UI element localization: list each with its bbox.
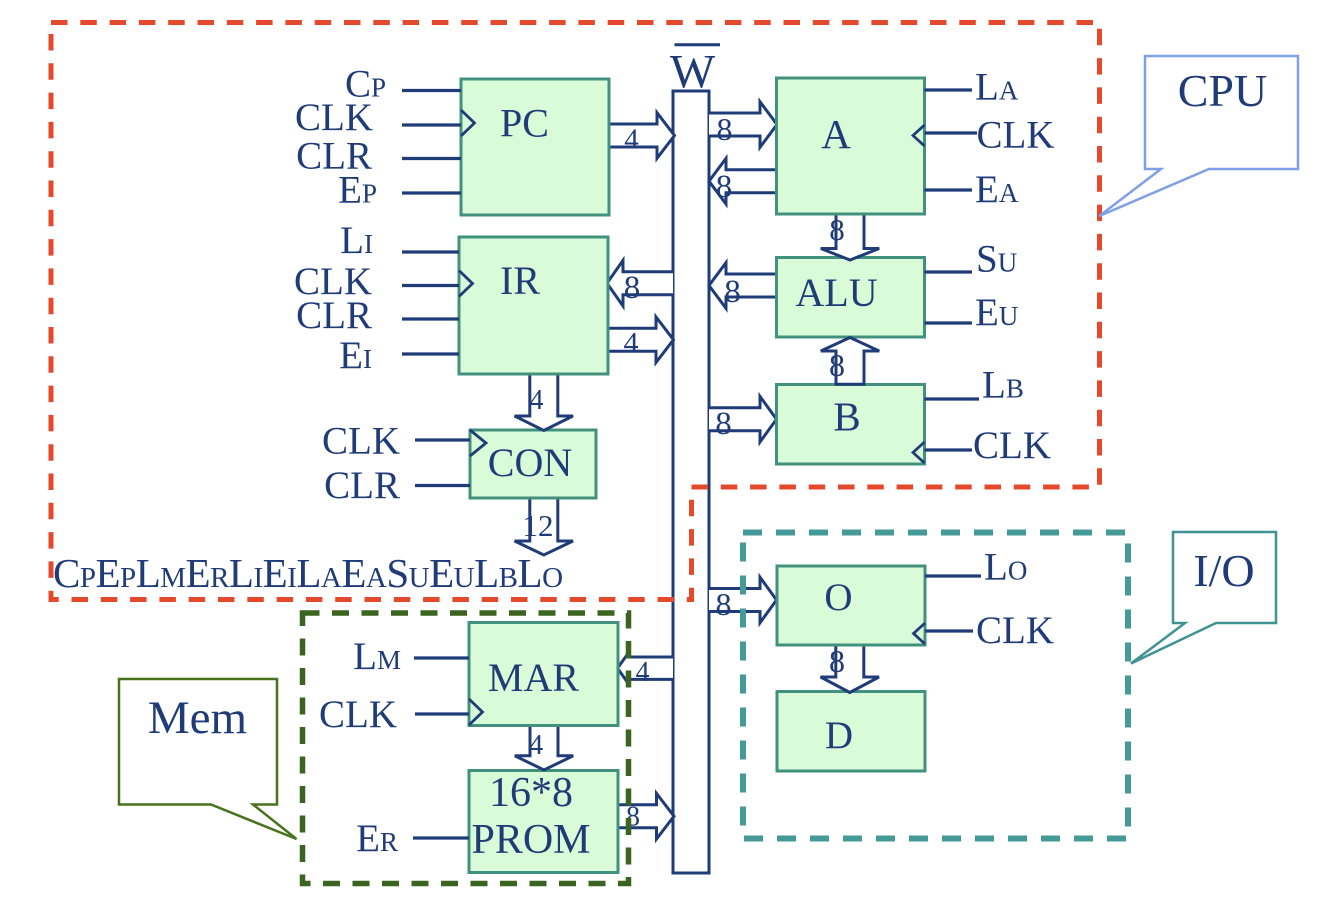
svg-text:CLR: CLR — [324, 464, 400, 507]
wire LM to MAR — [414, 656, 469, 659]
pin label EI — [339, 334, 372, 377]
arrow IR to CON, 4 bits — [515, 376, 573, 431]
wire CLK to O — [925, 629, 973, 632]
svg-text:CON: CON — [488, 440, 572, 485]
wire CLK to A — [925, 131, 978, 134]
wire A to EA — [925, 188, 973, 191]
block ALU — [777, 258, 925, 338]
bus arrow W to MAR, 4 bits — [618, 653, 674, 688]
svg-text:MAR: MAR — [488, 655, 579, 700]
arrow B to ALU, 8 bits — [821, 338, 879, 385]
svg-text:LB: LB — [982, 364, 1024, 407]
pin label CLK of B — [973, 424, 1051, 467]
svg-text:I/O: I/O — [1193, 545, 1254, 596]
svg-text:A: A — [821, 111, 851, 157]
bus W vertical rectangle — [673, 91, 709, 873]
svg-text:D: D — [825, 714, 853, 757]
svg-text:CLK: CLK — [322, 420, 400, 463]
svg-text:8: 8 — [829, 347, 845, 383]
callout Mem — [119, 679, 297, 839]
clock input chevron B — [913, 442, 925, 463]
register O — [777, 566, 925, 645]
callout I/O — [1131, 532, 1276, 664]
wire CLR to IR — [402, 317, 459, 320]
bus arrow ALU to W, 8 bits — [709, 263, 777, 310]
arrow MAR to PROM, 4 bits — [515, 727, 573, 770]
arrow CON control word out, 12 bits — [515, 500, 573, 556]
svg-text:B: B — [833, 394, 860, 440]
Mem region dashed boundary — [303, 613, 629, 884]
svg-text:8: 8 — [717, 111, 733, 147]
wire CLK to MAR — [415, 712, 469, 715]
svg-text:CLK: CLK — [977, 114, 1055, 157]
svg-text:8: 8 — [829, 212, 845, 247]
svg-text:CLK: CLK — [295, 96, 373, 139]
svg-text:CLR: CLR — [296, 294, 372, 337]
svg-text:4: 4 — [530, 385, 544, 416]
pin label SU — [976, 238, 1017, 281]
svg-text:8: 8 — [715, 406, 732, 442]
svg-text:EI: EI — [339, 334, 372, 377]
clock input chevron IR — [459, 271, 473, 297]
svg-text:4: 4 — [624, 327, 639, 360]
svg-text:W: W — [670, 46, 716, 99]
pin label CLK of A — [977, 114, 1055, 157]
svg-text:EA: EA — [975, 168, 1019, 211]
svg-text:8: 8 — [624, 270, 641, 306]
wire ALU to EU — [925, 321, 973, 324]
display D — [777, 692, 925, 772]
pin label CLK of IR — [294, 260, 372, 303]
memory 16*8 PROM — [469, 770, 618, 873]
svg-text:SU: SU — [976, 238, 1017, 281]
register IR — [459, 237, 608, 374]
svg-text:O: O — [824, 576, 852, 619]
pin label LM — [353, 635, 401, 678]
svg-text:LM: LM — [353, 635, 401, 678]
svg-text:4: 4 — [624, 124, 639, 156]
control word label CpEpLmErLiEiLaEaSuEuLbLo — [53, 550, 563, 596]
svg-text:LA: LA — [975, 66, 1019, 109]
svg-text:16*8: 16*8 — [489, 770, 573, 816]
clock input chevron PC — [461, 110, 475, 136]
clock input chevron CON — [470, 430, 486, 456]
svg-text:4: 4 — [636, 657, 650, 688]
pin label EU — [975, 291, 1018, 334]
wire A to LA — [925, 88, 973, 91]
svg-text:CLK: CLK — [976, 609, 1054, 652]
svg-text:8: 8 — [724, 274, 741, 310]
svg-text:8: 8 — [829, 643, 845, 679]
wire CLK to CON — [415, 438, 470, 441]
bus arrow W to B, 8 bits — [709, 396, 777, 442]
pin label CLK of CON — [322, 420, 400, 463]
pin label CLK of O — [976, 609, 1054, 652]
wire EI to IR — [402, 352, 459, 355]
bus label W with overline — [670, 45, 720, 99]
wire EP to PC — [402, 191, 461, 194]
clock input chevron O — [914, 623, 926, 644]
pin label LB — [982, 364, 1024, 407]
svg-text:PC: PC — [500, 101, 549, 146]
wire CP to PC — [402, 89, 461, 92]
pin label LA — [975, 66, 1019, 109]
pin label LO — [984, 546, 1027, 589]
svg-text:CLK: CLK — [319, 693, 397, 736]
pin label CLR of PC — [296, 135, 372, 178]
controller CON — [470, 430, 596, 498]
wire CLR to PC — [402, 157, 461, 160]
wire O to LO — [925, 574, 981, 577]
svg-text:8: 8 — [716, 169, 733, 205]
svg-text:ALU: ALU — [795, 270, 877, 315]
pin label ER — [356, 817, 398, 860]
wire LI to IR — [402, 250, 459, 253]
pin label CLR of CON — [324, 464, 400, 507]
wire B to LB — [925, 397, 980, 400]
arrow O to D, 8 bits — [821, 643, 879, 693]
CPU region dashed boundary — [51, 23, 1100, 600]
svg-text:8: 8 — [716, 586, 732, 622]
register MAR — [469, 623, 618, 726]
svg-text:ER: ER — [356, 817, 398, 860]
svg-text:CLK: CLK — [973, 424, 1051, 467]
pin label CLK of MAR — [319, 693, 397, 736]
wire CLR to CON — [415, 484, 470, 487]
pin label CLR of IR — [296, 294, 372, 337]
callout CPU — [1099, 56, 1298, 216]
wire ALU to SU — [925, 270, 973, 273]
bus arrow PC to W, 4 bits — [609, 113, 675, 159]
svg-text:EU: EU — [975, 291, 1018, 334]
svg-text:LO: LO — [984, 546, 1027, 589]
bus arrow W to A, 8 bits — [709, 102, 777, 148]
svg-text:Mem: Mem — [148, 692, 247, 744]
bus arrow W to O, 8 bits — [709, 577, 777, 623]
svg-text:CPU: CPU — [1178, 65, 1267, 116]
bus arrow PROM to W, 8 bits — [618, 793, 674, 839]
wire CLK to IR — [402, 284, 459, 287]
clock input chevron A — [913, 125, 925, 146]
pin label EA — [975, 168, 1019, 211]
register A — [777, 78, 925, 214]
wire ER to PROM — [413, 836, 469, 839]
bus arrow A to W, 8 bits — [709, 158, 777, 205]
register B — [777, 385, 925, 465]
pin label CP — [345, 63, 386, 106]
svg-text:CPEPLMERLIEILAEASUEULBLO: CPEPLMERLIEILAEASUEULBLO — [53, 550, 563, 596]
svg-text:12: 12 — [523, 508, 554, 543]
register PC — [461, 79, 609, 215]
svg-text:PROM: PROM — [471, 817, 590, 863]
clock input chevron MAR — [469, 699, 483, 725]
I/O region dashed boundary — [743, 533, 1128, 839]
svg-text:LI: LI — [340, 219, 373, 262]
bus arrow IR to W, 4 bits — [607, 317, 674, 363]
wire CLK to PC — [402, 123, 461, 126]
pin label EP — [338, 169, 377, 212]
pin label LI — [340, 219, 373, 262]
svg-text:4: 4 — [529, 729, 544, 761]
arrow A to ALU, 8 bits — [821, 212, 879, 260]
wire CLK to B — [925, 448, 973, 451]
pin label CLK of PC — [295, 96, 373, 139]
svg-text:IR: IR — [500, 258, 540, 303]
bus arrow W to IR, 8 bits — [607, 260, 673, 306]
